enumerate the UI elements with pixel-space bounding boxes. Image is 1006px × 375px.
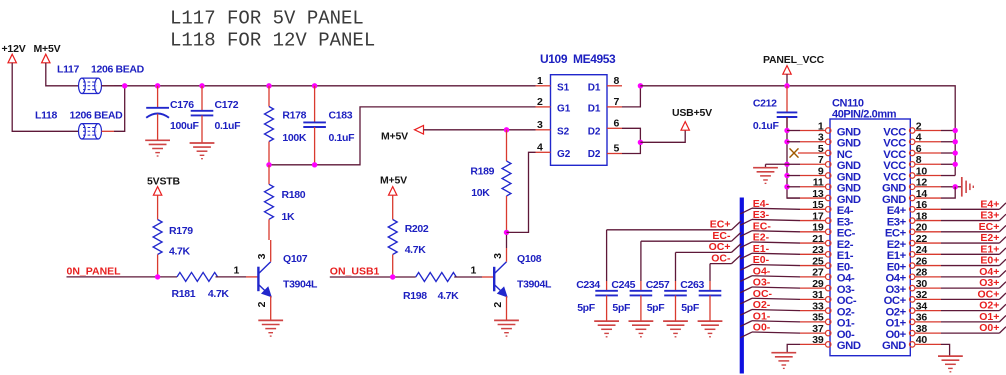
svg-text:40: 40 <box>916 334 928 346</box>
wire O2- to pin33 <box>752 310 800 311</box>
wire GND pin11 <box>787 186 800 188</box>
resistor R202 lead2 <box>392 255 394 278</box>
svg-text:E4-: E4- <box>753 198 770 210</box>
pin 9 CN110 <box>825 173 831 179</box>
svg-text:E2-: E2- <box>837 239 854 251</box>
node junction R178 <box>266 83 271 88</box>
svg-text:D2: D2 <box>588 149 601 160</box>
pin 28 CN110 <box>909 274 915 280</box>
svg-text:G2: G2 <box>557 149 571 160</box>
wire L117 out <box>102 85 115 87</box>
capacitor C172 lead2 <box>201 115 203 143</box>
node junction C176 <box>155 83 160 88</box>
wire G2 link <box>507 152 536 232</box>
svg-text:U109: U109 <box>540 52 568 66</box>
svg-text:E1+: E1+ <box>887 250 907 262</box>
svg-text:L118 FOR 12V PANEL: L118 FOR 12V PANEL <box>170 30 375 52</box>
pin 40 CN110 <box>909 342 915 348</box>
svg-text:OC-: OC- <box>711 252 731 264</box>
svg-text:NC: NC <box>837 149 853 161</box>
capacitor C234 lead2 <box>606 295 608 321</box>
svg-text:E2-: E2- <box>753 232 770 244</box>
svg-text:VCC: VCC <box>883 138 906 150</box>
svg-text:30: 30 <box>916 278 928 290</box>
capacitor C234 lead <box>606 230 608 281</box>
node junction GND pin3 <box>784 139 789 144</box>
pin 38 CN110 <box>909 330 915 336</box>
svg-text:T3904L: T3904L <box>283 279 318 291</box>
svg-text:D1: D1 <box>588 104 601 115</box>
resistor R179 <box>153 220 162 255</box>
svg-text:5pF: 5pF <box>612 302 631 314</box>
wire pin28 to edge <box>941 276 999 278</box>
wire O3- to pin29 <box>752 287 800 288</box>
svg-text:EC+: EC+ <box>885 228 907 240</box>
pin 23 CN110 <box>825 252 831 257</box>
pin D1-8 stub <box>607 85 622 87</box>
wire pin38 to edge <box>941 332 999 334</box>
capacitor C212 lead <box>786 86 788 113</box>
pin 37 CN110 <box>825 330 831 336</box>
node junction C172 <box>199 83 204 88</box>
svg-text:S2: S2 <box>557 127 570 138</box>
wire bus entry O1- <box>740 321 752 327</box>
wire bus entry O0- <box>740 332 752 338</box>
svg-text:O4-: O4- <box>837 273 855 285</box>
wire M+5V to S2 <box>424 129 536 131</box>
svg-text:GND: GND <box>837 126 861 138</box>
wire VCC pin2 <box>941 130 955 132</box>
wire GND pin9 <box>787 175 800 177</box>
node junction PANEL_VCC <box>784 83 789 88</box>
svg-text:31: 31 <box>812 289 824 301</box>
svg-text:O4+: O4+ <box>885 273 906 285</box>
wire OC+ net <box>676 251 732 253</box>
svg-text:O0-: O0- <box>837 329 855 341</box>
wire bus entry E0- <box>740 264 752 270</box>
pin 1 lead Q108 <box>482 276 494 278</box>
svg-text:12: 12 <box>916 177 928 189</box>
wire bus entry E1- <box>740 253 752 259</box>
power +12V symbol <box>8 54 16 63</box>
svg-text:24: 24 <box>916 244 928 256</box>
resistor R179 lead2 <box>157 255 159 277</box>
svg-text:6: 6 <box>916 143 922 155</box>
svg-text:O1-: O1- <box>753 310 771 322</box>
svg-text:E0-: E0- <box>837 261 854 273</box>
wire pin32 to edge <box>941 298 999 300</box>
capacitor C257 <box>664 290 687 292</box>
resistor R180 lead2 <box>268 219 270 240</box>
capacitor C257 lead <box>675 252 677 281</box>
svg-text:USB+5V: USB+5V <box>672 107 712 119</box>
svg-text:7: 7 <box>614 96 620 108</box>
svg-text:R178: R178 <box>282 110 306 122</box>
wire GND pin13 <box>787 197 800 199</box>
svg-text:5pF: 5pF <box>681 302 700 314</box>
resistor R178 <box>265 107 274 142</box>
wire bus entry OC+ <box>999 293 1006 299</box>
svg-text:C172: C172 <box>215 99 239 111</box>
svg-text:T3904L: T3904L <box>517 279 552 291</box>
svg-text:100uF: 100uF <box>170 120 200 132</box>
wire E3- to pin17 <box>752 219 800 220</box>
svg-text:E0+: E0+ <box>980 255 999 267</box>
svg-text:EC+: EC+ <box>710 219 731 231</box>
svg-text:R198: R198 <box>403 290 427 302</box>
ground below C234 <box>594 320 619 322</box>
connector CN110 body <box>830 119 910 356</box>
svg-text:GND: GND <box>837 138 861 150</box>
svg-text:8: 8 <box>916 154 922 166</box>
svg-text:OC+: OC+ <box>978 288 1000 300</box>
wire bus entry E3+ <box>999 214 1006 220</box>
svg-text:+12V: +12V <box>2 43 26 55</box>
wire bus entry EC- <box>740 231 752 237</box>
wire bus entry OC- <box>740 298 752 304</box>
wire ON_USB1 <box>330 276 416 278</box>
wire bus entry EC- <box>732 232 742 241</box>
pin 5 CN110 <box>825 150 831 156</box>
node junction VCC8 <box>953 162 958 167</box>
pin 30 CN110 <box>909 285 915 291</box>
wire O4- to pin27 <box>752 276 800 277</box>
resistor R189 <box>502 161 511 196</box>
pin 1 CN110 <box>825 128 831 134</box>
pin 13 CN110 <box>825 195 831 201</box>
svg-text:GND: GND <box>837 171 861 183</box>
svg-text:37: 37 <box>812 323 824 335</box>
wire Q108 emitter <box>506 296 508 320</box>
wire bus entry O3+ <box>999 282 1006 288</box>
pin S2 stub <box>536 129 551 131</box>
ground below Q108 <box>494 319 519 321</box>
svg-text:R180: R180 <box>282 189 306 201</box>
svg-text:ME4953: ME4953 <box>573 52 616 66</box>
node junction L118/L117 <box>122 83 127 88</box>
ground below C176 <box>145 139 170 141</box>
svg-text:E4+: E4+ <box>980 198 999 210</box>
pin 20 CN110 <box>909 229 915 235</box>
resistor R179 lead <box>157 195 159 219</box>
wire E1- to pin23 <box>752 253 800 254</box>
capacitor C183 <box>303 121 326 123</box>
wire M+5V to L117 <box>46 63 79 86</box>
svg-text:O4+: O4+ <box>979 266 999 278</box>
wire bus entry E0+ <box>999 259 1006 265</box>
svg-text:R202: R202 <box>405 223 429 235</box>
ground right of CN110 <box>961 177 963 197</box>
wire pin34 to edge <box>941 310 999 312</box>
svg-text:VCC: VCC <box>883 160 906 172</box>
svg-text:EC-: EC- <box>753 220 772 232</box>
bus PANEL signals <box>740 198 744 374</box>
svg-text:GND: GND <box>882 183 906 195</box>
svg-text:9: 9 <box>818 165 824 177</box>
resistor R178 lead <box>268 86 270 107</box>
wire Q108 collector <box>506 248 508 262</box>
svg-text:1: 1 <box>234 265 240 277</box>
capacitor C176 lead <box>157 86 159 108</box>
node junction R189 top <box>504 127 509 132</box>
wire bus entry O4- <box>740 276 752 282</box>
svg-text:11: 11 <box>813 177 824 189</box>
capacitor C183 lead2 <box>314 127 316 165</box>
pin D2-5 stub <box>607 153 622 155</box>
wire GND pin1 <box>787 130 800 132</box>
wire EC- net <box>641 240 732 242</box>
wire bus entry E4- <box>740 208 752 214</box>
power USB+5V symbol <box>681 122 689 131</box>
svg-text:C183: C183 <box>329 110 353 122</box>
resistor R189 lead <box>506 130 508 161</box>
node junction GND pin1 <box>784 128 789 133</box>
svg-text:E1-: E1- <box>753 243 770 255</box>
node junction VCC2 <box>953 128 958 133</box>
pin 24 CN110 <box>909 252 915 257</box>
power PANEL_VCC symbol <box>783 66 791 75</box>
svg-text:3: 3 <box>492 253 504 259</box>
node junction C183 bottom <box>312 162 317 167</box>
pin 22 CN110 <box>909 240 915 246</box>
pin S1 stub <box>536 85 551 87</box>
capacitor C234 <box>595 290 618 292</box>
svg-text:OC-: OC- <box>837 295 857 307</box>
svg-text:16: 16 <box>916 199 928 211</box>
pin 14 CN110 <box>909 195 915 201</box>
pin G1 stub <box>536 106 551 108</box>
ground below C263 <box>698 320 723 322</box>
wire EC- to pin19 <box>752 231 800 232</box>
svg-text:VCC: VCC <box>883 126 906 138</box>
transistor Q108 <box>493 267 495 292</box>
svg-text:M+5V: M+5V <box>381 130 408 142</box>
pin 1 lead Q107 <box>246 276 258 278</box>
resistor R198 <box>416 273 457 282</box>
svg-text:E1-: E1- <box>837 250 854 262</box>
capacitor C212 <box>777 111 798 113</box>
wire top rail <box>102 85 536 87</box>
svg-text:O0-: O0- <box>753 322 771 334</box>
svg-text:E4+: E4+ <box>887 205 907 217</box>
svg-text:100K: 100K <box>282 132 306 144</box>
wire OC- net <box>710 263 732 265</box>
resistor R180 lead <box>268 165 270 185</box>
svg-text:VCC: VCC <box>883 171 906 183</box>
node junction pin12 <box>953 184 958 189</box>
svg-text:8: 8 <box>614 75 620 87</box>
svg-text:O2-: O2- <box>837 306 855 318</box>
wire GND pin7 <box>787 163 800 165</box>
svg-text:E1+: E1+ <box>980 243 999 255</box>
svg-text:O3+: O3+ <box>979 277 999 289</box>
wire R198 to Q108 base <box>454 276 482 278</box>
pin 2 CN110 <box>909 128 915 134</box>
svg-text:29: 29 <box>812 278 824 290</box>
wire pin39 to ground <box>787 344 800 352</box>
svg-text:0.1uF: 0.1uF <box>753 120 780 132</box>
wire E0- to pin25 <box>752 264 800 265</box>
wire Q107 emitter <box>270 296 272 320</box>
wire bus entry E3- <box>740 219 752 225</box>
power M+5V left symbol <box>415 126 424 135</box>
wire ON_PANEL <box>67 276 178 278</box>
node junction GND pin11 <box>784 184 789 189</box>
svg-text:Q107: Q107 <box>283 253 308 265</box>
wire pin20 to edge <box>941 231 999 233</box>
svg-text:10: 10 <box>916 165 928 177</box>
svg-text:O2+: O2+ <box>885 306 906 318</box>
svg-text:EC-: EC- <box>712 230 731 242</box>
node junction D1 <box>638 83 643 88</box>
wire pin16 to edge <box>941 208 999 210</box>
pin 29 CN110 <box>825 285 831 291</box>
svg-text:21: 21 <box>812 233 824 245</box>
svg-text:25: 25 <box>812 255 824 267</box>
svg-text:M+5V: M+5V <box>380 174 407 186</box>
wire PANEL_VCC rail <box>640 86 955 176</box>
resistor R181 <box>177 272 218 281</box>
svg-text:C212: C212 <box>753 98 777 110</box>
resistor R178 lead2 <box>268 142 270 165</box>
svg-text:S1: S1 <box>557 83 570 94</box>
svg-text:27: 27 <box>812 267 824 279</box>
svg-text:R189: R189 <box>470 166 494 178</box>
svg-text:O3-: O3- <box>753 277 771 289</box>
capacitor C212 lead2 <box>786 117 788 131</box>
svg-text:PANEL_VCC: PANEL_VCC <box>763 54 825 66</box>
pin D1-7 stub <box>607 106 622 108</box>
svg-text:5: 5 <box>818 143 824 155</box>
wire R181 to Q107 base <box>216 276 247 278</box>
svg-text:VCC: VCC <box>883 149 906 161</box>
pin 26 CN110 <box>909 263 915 269</box>
wire VCC pin8 <box>941 163 955 165</box>
capacitor C245 lead <box>640 241 642 281</box>
svg-text:C245: C245 <box>611 279 635 291</box>
svg-text:GND: GND <box>882 194 906 206</box>
wire GND pin3 <box>787 141 800 143</box>
pin 11 CN110 <box>825 184 831 190</box>
pin 8 CN110 <box>909 162 915 168</box>
svg-text:34: 34 <box>916 300 928 312</box>
svg-text:Q108: Q108 <box>517 253 542 265</box>
resistor R202 <box>388 220 397 255</box>
wire bus entry O2- <box>740 310 752 316</box>
svg-text:R179: R179 <box>169 225 193 237</box>
svg-text:7: 7 <box>818 154 824 166</box>
svg-text:O0+: O0+ <box>885 329 906 341</box>
svg-text:35: 35 <box>812 312 824 324</box>
wire E2- to pin21 <box>752 242 800 243</box>
svg-text:E3+: E3+ <box>887 216 907 228</box>
svg-text:32: 32 <box>916 289 928 301</box>
pin 3 CN110 <box>825 139 831 145</box>
wire divider rail <box>269 107 536 165</box>
node junction R178 bottom <box>266 162 271 167</box>
svg-text:OC+: OC+ <box>709 241 731 253</box>
wire bus entry E4+ <box>999 203 1006 209</box>
svg-text:GND: GND <box>837 194 861 206</box>
capacitor C172 <box>191 110 214 112</box>
op-amp U109 body <box>551 75 608 166</box>
pin 4 CN110 <box>909 139 915 145</box>
svg-text:C257: C257 <box>646 279 670 291</box>
wire bus entry OC- <box>732 255 742 264</box>
wire O0- to pin37 <box>752 332 800 333</box>
wire bus entry E1+ <box>999 248 1006 254</box>
svg-text:O3+: O3+ <box>885 284 906 296</box>
wire ground tap <box>766 163 788 165</box>
svg-text:1: 1 <box>471 265 477 277</box>
svg-text:39: 39 <box>812 334 824 346</box>
svg-text:E3-: E3- <box>753 209 770 221</box>
svg-text:26: 26 <box>916 255 928 267</box>
wire bus entry O3- <box>740 287 752 293</box>
power 5VSTB symbol <box>153 187 161 196</box>
svg-text:4.7K: 4.7K <box>405 244 427 256</box>
svg-text:EC+: EC+ <box>979 221 1000 233</box>
svg-text:3: 3 <box>818 132 824 144</box>
svg-text:28: 28 <box>916 267 928 279</box>
capacitor C245 lead2 <box>640 295 642 321</box>
svg-text:1K: 1K <box>282 211 295 223</box>
pin 39 CN110 <box>825 342 831 348</box>
pin 25 CN110 <box>825 263 831 269</box>
node junction Q108 collector <box>504 230 509 235</box>
wire GND bus left <box>787 117 800 198</box>
svg-text:G1: G1 <box>557 104 571 115</box>
wire +12V to L118 <box>12 63 78 132</box>
svg-text:38: 38 <box>916 323 928 335</box>
pin 35 CN110 <box>825 319 831 325</box>
ground below Q107 <box>258 319 283 321</box>
svg-text:1: 1 <box>537 75 543 87</box>
svg-text:0.1uF: 0.1uF <box>215 120 242 132</box>
svg-text:6: 6 <box>614 117 620 129</box>
wire Q107 collector <box>270 240 272 262</box>
svg-text:2: 2 <box>256 301 268 307</box>
pin 21 CN110 <box>825 240 831 246</box>
svg-text:4: 4 <box>916 132 922 144</box>
svg-text:2: 2 <box>916 120 922 132</box>
svg-text:1: 1 <box>818 120 824 132</box>
svg-text:O1-: O1- <box>837 318 855 330</box>
svg-text:OC-: OC- <box>753 288 773 300</box>
node junction VCC4 <box>953 139 958 144</box>
wire bus entry O4+ <box>999 270 1006 276</box>
pin 33 CN110 <box>825 308 831 314</box>
wire bus entry EC+ <box>999 225 1006 231</box>
svg-text:1206 BEAD: 1206 BEAD <box>91 64 145 76</box>
svg-text:E3+: E3+ <box>980 210 999 222</box>
svg-text:22: 22 <box>916 233 928 245</box>
pin D2-6 stub <box>607 127 622 129</box>
power M+5V symbol mid <box>389 187 397 196</box>
wire VCC pin4 <box>941 141 955 143</box>
svg-text:2: 2 <box>492 302 504 308</box>
pin 12 CN110 <box>909 184 915 190</box>
wire pin30 to edge <box>941 287 999 289</box>
svg-text:36: 36 <box>916 312 928 324</box>
pin 36 CN110 <box>909 319 915 325</box>
wire E4- to pin15 <box>752 208 800 209</box>
svg-text:O2-: O2- <box>753 299 771 311</box>
svg-text:L118: L118 <box>35 110 57 122</box>
svg-text:GND: GND <box>882 340 906 352</box>
svg-text:E0+: E0+ <box>887 261 907 273</box>
wire bus entry O1+ <box>999 315 1006 321</box>
